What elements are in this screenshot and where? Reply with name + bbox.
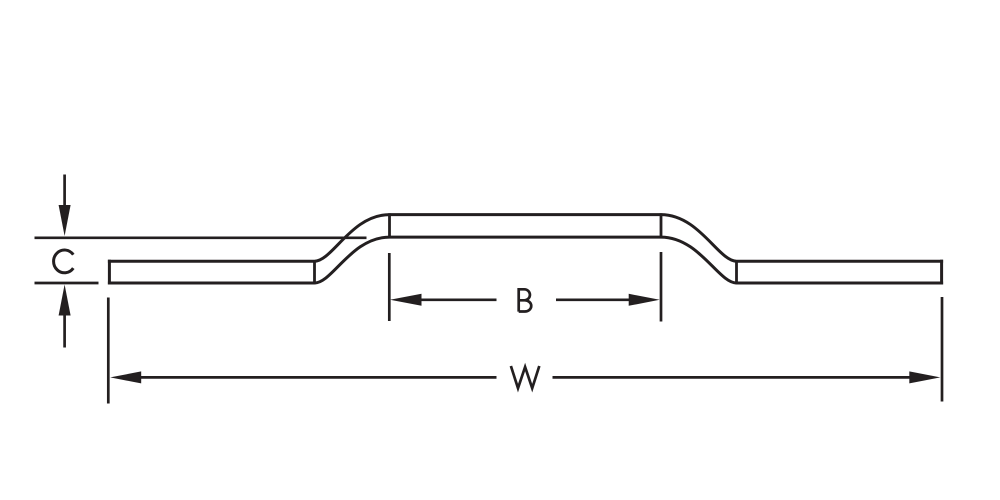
- dimension C upper arrow shaft: [63, 175, 66, 208]
- strap right bend top surface curve: [661, 215, 737, 262]
- dimension B dim line right segment: [556, 298, 630, 301]
- dimension C upper arrowhead: [59, 205, 71, 236]
- strap raised flat left tangent line: [388, 213, 391, 238]
- dimension W dim line left segment: [140, 376, 497, 379]
- strap raised flat bottom edge: [390, 236, 662, 239]
- strap raised flat right tangent line: [660, 213, 663, 238]
- strap left strip bottom edge: [108, 282, 315, 285]
- dimension B right extension line: [660, 252, 663, 322]
- strap left strip top edge: [108, 260, 315, 263]
- strap left bend tangent line: [313, 260, 316, 284]
- strap left bend top surface curve: [315, 215, 390, 262]
- dimension W label: [511, 366, 539, 388]
- strap left end cap: [108, 260, 111, 285]
- dimension C label: [54, 250, 74, 273]
- dimension C lower arrow shaft: [63, 314, 66, 348]
- dimension B left extension line: [388, 253, 391, 321]
- dimension W right extension line: [941, 297, 944, 402]
- strap right end cap: [940, 260, 943, 285]
- dimension B left arrowhead: [390, 294, 422, 306]
- strap left bend bottom surface curve: [315, 237, 390, 283]
- dimension B right arrowhead: [629, 294, 660, 306]
- dimension C lower arrowhead: [59, 285, 71, 316]
- strap right strip bottom edge: [737, 282, 944, 285]
- strap raised flat top edge: [390, 213, 662, 216]
- strap right strip top edge: [737, 260, 944, 263]
- dimension B dim line left segment: [421, 298, 497, 301]
- strap right bend bottom surface curve: [661, 237, 737, 283]
- dimension C bottom extension line: [35, 282, 99, 285]
- strap right bend tangent line: [735, 260, 738, 284]
- dimension B label: [519, 289, 532, 311]
- dimension W dim line right segment: [553, 376, 912, 379]
- dimension W left arrowhead: [110, 371, 141, 383]
- dimension W right arrowhead: [909, 371, 940, 383]
- dimension C top extension line: [35, 236, 367, 239]
- dimension W left extension line: [107, 298, 110, 404]
